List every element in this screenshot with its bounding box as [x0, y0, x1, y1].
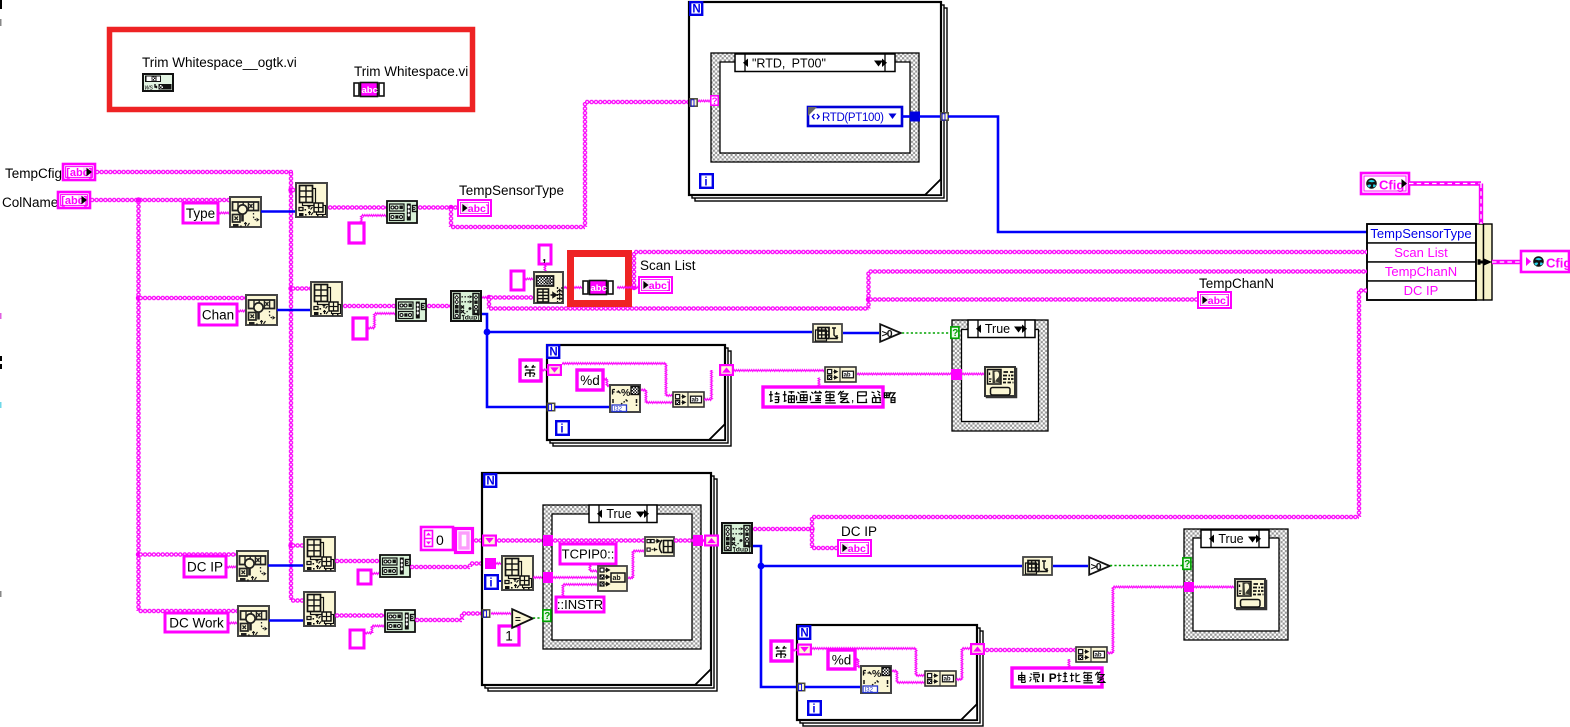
- svg-text:DC IP: DC IP: [1404, 283, 1439, 298]
- node Format Into String (bot): [861, 666, 891, 694]
- wire format to concat (mid): [641, 388, 646, 393]
- wire spreadsheet to trim: [564, 285, 582, 290]
- constant 1: [499, 626, 519, 645]
- wire tunnel to case (big): [497, 538, 543, 542]
- constant empty string (Type row): [349, 223, 364, 243]
- wire trim out to big loop: [410, 565, 470, 569]
- wire search DCWork output (blue): [269, 619, 303, 622]
- wire index-to-trim (Chan): [343, 304, 397, 308]
- tunnel [] blue (mid loop): [547, 403, 554, 411]
- wire label to concat2: [817, 378, 822, 388]
- wire array size to >0: [843, 332, 879, 335]
- node Index Array (DC Work): [304, 592, 335, 626]
- indicator Scan List: [639, 277, 672, 293]
- svg-text:TempChanN: TempChanN: [1199, 276, 1274, 291]
- wire scan list up-right to bundle: [632, 252, 636, 288]
- node Index Array (in loop): [502, 556, 533, 590]
- node Greater Than 0 (scan): [880, 324, 901, 342]
- node Build Array (TCPIP): [645, 537, 674, 556]
- constant %d (bot): [828, 650, 855, 669]
- constant 0 numeric: [421, 527, 453, 550]
- red free label frame: [110, 30, 473, 110]
- subVI Trim Whitespace__ogtk.vi icon: [143, 74, 173, 92]
- svg-text:TempCfig: TempCfig: [5, 166, 62, 181]
- wire case out to loop tunnel: [703, 538, 706, 542]
- svg-text:Type: Type: [186, 206, 215, 221]
- wire bot loop out: [985, 648, 1075, 652]
- wire concat2 to case: [857, 372, 952, 377]
- svg-text:%d: %d: [580, 373, 600, 388]
- junction TempCfig-Type: [288, 187, 293, 192]
- svg-text:True: True: [985, 322, 1010, 336]
- node Trim Whitespace array (Chan): [396, 299, 426, 321]
- wire dup2 out: [753, 527, 812, 531]
- wire blue to array size: [487, 331, 812, 334]
- tunnel [] right (top loop): [941, 113, 948, 121]
- wire index to trim (DCWork): [335, 613, 386, 617]
- wire TempCfig to DCWork index stub: [291, 598, 305, 602]
- wire enum to tunnel (blue): [902, 115, 911, 118]
- wire empty to trim (DCIP): [371, 571, 379, 576]
- junction ColName: [136, 197, 141, 202]
- node Search 1D Array (Chan): [246, 295, 277, 325]
- For loop (TCPIP): [488, 479, 717, 691]
- constant empty string (scan): [511, 271, 524, 290]
- wire blue inside mid loop: [555, 406, 609, 409]
- wire [] to equals: [491, 611, 511, 616]
- wire Cfig to bundle (cluster): [1409, 181, 1481, 185]
- For loop i (bot): [808, 701, 821, 715]
- wire blue down to mid loop: [487, 332, 547, 407]
- constant empty pink box: [456, 529, 473, 553]
- junction TempSensorType: [448, 205, 453, 210]
- wire empty to spreadsheet: [524, 277, 533, 282]
- wire INSTR to concat3: [561, 585, 566, 598]
- tunnel [] blue (bot loop): [797, 683, 804, 691]
- svg-text:RTD(PT100): RTD(PT100): [822, 112, 884, 124]
- wire format to concat (bot): [892, 669, 897, 674]
- junction scan list: [631, 285, 636, 290]
- svg-text:,: ,: [543, 249, 547, 264]
- tunnel up-arrow out (mid loop): [719, 364, 734, 376]
- For loop (power format): [803, 631, 983, 726]
- wire tunnel to concat (bot): [812, 646, 916, 651]
- case ? tunnel (power): [1183, 558, 1191, 570]
- label 扫描通道重复,已忽略: [763, 387, 883, 407]
- wire TempSensorType down-right: [449, 208, 453, 228]
- wire ColName to DCWork search: [139, 609, 238, 613]
- wire array into build: [553, 538, 644, 542]
- svg-text:::INSTR: ::INSTR: [557, 597, 603, 612]
- For loop i (mid): [556, 421, 569, 435]
- wire empty-to-trim (Type): [359, 216, 364, 224]
- wire bool to case (power): [1110, 565, 1184, 567]
- wire blue down to bottom loop: [761, 566, 797, 687]
- constant comma: [539, 245, 551, 264]
- node Index Array (Chan): [311, 282, 342, 316]
- tunnel down-arrow (mid loop): [547, 364, 562, 376]
- wire trim to dup (Chan): [427, 304, 450, 308]
- tunnel up-arrow out (big loop): [704, 535, 719, 547]
- svg-text:True: True: [606, 507, 631, 521]
- node Format Into String (mid): [610, 385, 640, 413]
- case selector True (power): [1201, 530, 1269, 548]
- wire Chan to search: [237, 309, 245, 314]
- node Remove Duplicates 2 [dup]: [722, 523, 752, 554]
- tunnel magenta solid (scan): [951, 369, 962, 380]
- wire concat3 to build: [628, 576, 633, 581]
- case structure (sensor type): [711, 53, 919, 162]
- wire dup out: [482, 295, 489, 300]
- wire ColName to DCIP search: [139, 552, 237, 556]
- wire trim out to big loop (DCWork): [415, 618, 462, 622]
- control TempCfig [abc]: [63, 164, 95, 180]
- node Concatenate Strings (power warning): [1076, 647, 1107, 662]
- case ? tunnel (scan): [951, 327, 959, 339]
- wire build out: [674, 538, 693, 542]
- svg-text:Cfig: Cfig: [1379, 178, 1404, 193]
- case selector RTD PT00: [735, 54, 895, 72]
- wire search Type output (blue index): [261, 210, 296, 213]
- wire ColName vertical trunk: [136, 200, 140, 611]
- wire dup to spreadsheet node: [489, 295, 533, 299]
- wire bundle to Cfig out (cluster): [1492, 260, 1521, 264]
- node Index Array (Type): [296, 183, 327, 217]
- wire index to trim (DCIP): [335, 559, 381, 563]
- node Concatenate Strings (bot loop): [925, 671, 956, 686]
- wire to TempChanN indicator: [869, 297, 1199, 301]
- tunnel solid case-out: [693, 535, 703, 546]
- control ColName [abc]: [58, 192, 90, 208]
- wire %d to format: [603, 377, 607, 382]
- wire top loop to bundle (blue): [948, 117, 1367, 233]
- For loop N (big): [484, 474, 496, 487]
- wire concat to out tunnel (mid): [704, 397, 712, 402]
- For loop (sensor type): [695, 8, 947, 201]
- For loop (scan format): [553, 351, 731, 446]
- svg-text:"RTD, PT00": "RTD, PT00": [752, 57, 826, 71]
- constant TCPIP0::: [560, 544, 616, 564]
- svg-text:P: P: [1049, 671, 1057, 685]
- tunnel solid case-in2: [543, 572, 553, 583]
- wire concat to out tunnel (bot): [956, 677, 962, 682]
- wire tunnel to case selector: [698, 99, 711, 104]
- node Equal? (big loop): [512, 609, 533, 628]
- svg-text:Trim Whitespace.vi: Trim Whitespace.vi: [354, 64, 468, 79]
- case ? tunnel (TCPIP): [543, 610, 551, 622]
- wire 第 to tunnel: [541, 368, 547, 373]
- svg-text:TempSensorType: TempSensorType: [1370, 226, 1471, 241]
- tunnel [] DCWork (big loop): [482, 610, 489, 618]
- tunnel magenta solid (power): [1184, 582, 1194, 592]
- wire i to index: [499, 580, 501, 582]
- wire trim to TempSensorType: [418, 205, 458, 209]
- node Trim Whitespace array (Type): [387, 201, 417, 223]
- For loop i (big): [485, 575, 498, 589]
- wire blue to array size 2: [761, 565, 1022, 568]
- svg-text:Chan: Chan: [202, 307, 234, 322]
- red frame around trim: [571, 254, 629, 304]
- node Concatenate Strings 3 (TCPIP): [598, 566, 627, 591]
- svg-text:DC IP: DC IP: [187, 559, 223, 574]
- svg-text:TCPIP0::: TCPIP0::: [562, 547, 615, 562]
- case selector True (scan): [968, 320, 1035, 338]
- wire TempCfig to Index Array stub: [291, 188, 298, 192]
- wire into dialog (power): [1194, 585, 1234, 590]
- svg-text:Cfig: Cfig: [1546, 256, 1570, 271]
- svg-text:DC IP: DC IP: [841, 524, 877, 539]
- wire case-in2 to concat3: [553, 575, 597, 580]
- case structure (TCPIP): [543, 505, 701, 649]
- junction dup out: [486, 295, 491, 300]
- node Array Size (scan): [813, 324, 842, 342]
- wire to DC IP indicator: [810, 529, 814, 548]
- junction ColName-DCIP: [136, 552, 141, 557]
- indicator Cfig: [1521, 251, 1570, 272]
- tunnel solid in1 (big loop): [485, 558, 496, 569]
- wire 1 to equals: [512, 621, 517, 626]
- wire TempCfig vertical trunk: [289, 172, 293, 600]
- node Array Size (power): [1023, 557, 1052, 575]
- wire equals to case ?: [533, 617, 544, 619]
- wire comma down: [543, 264, 548, 272]
- constant Type: [183, 203, 218, 223]
- wire label to concat (power): [1067, 659, 1072, 668]
- svg-text:Trim Whitespace__ogtk.vi: Trim Whitespace__ogtk.vi: [142, 55, 297, 70]
- constant ::INSTR: [556, 597, 604, 612]
- svg-text:%d: %d: [832, 652, 852, 667]
- node Remove Duplicates [dup]: [451, 291, 481, 322]
- svg-text:,: ,: [851, 391, 854, 405]
- svg-text:True: True: [1218, 532, 1243, 546]
- wire 0 to big loop tunnel: [474, 538, 482, 542]
- indicator DC IP: [838, 540, 871, 556]
- svg-text:1: 1: [505, 628, 513, 643]
- junction dup2 out: [809, 526, 814, 531]
- constant 第 (mid): [520, 360, 541, 381]
- wire TempCfig to DCIP index stub: [291, 543, 305, 547]
- wire bool to case (scan): [902, 332, 952, 334]
- node Concatenate Strings (mid loop): [673, 392, 704, 407]
- wire up to top For loop: [583, 102, 587, 227]
- case selector True (TCPIP): [589, 505, 657, 523]
- indicator TempChanN: [1198, 292, 1231, 308]
- svg-text:DC Work: DC Work: [169, 615, 224, 630]
- wire trim out: [617, 285, 639, 290]
- svg-text:Scan List: Scan List: [640, 258, 696, 273]
- constant Chan: [199, 304, 237, 325]
- For loop N (top): [690, 2, 702, 15]
- wire blue inside bot loop: [805, 686, 860, 689]
- node Trim Whitespace array (DC IP): [380, 555, 410, 577]
- node Trim Whitespace array (DC Work): [385, 610, 415, 632]
- wire ColName to Chan search: [139, 296, 246, 300]
- constant %d (mid): [577, 370, 603, 390]
- node Search 1D Array (Type): [230, 197, 261, 227]
- wire index out to case tunnel: [533, 575, 543, 580]
- wire index-to-trim (Type): [328, 205, 388, 209]
- junction TempCfig-DCIP: [288, 543, 293, 548]
- constant empty (DCWork row): [350, 630, 364, 648]
- svg-text:I: I: [1041, 671, 1044, 685]
- control Cfig: [1361, 173, 1409, 194]
- wire dup blue out: [482, 314, 487, 332]
- wire ColName horizontal: [90, 198, 229, 202]
- case ? tunnel (top): [711, 96, 718, 107]
- wire TempCfig to Chan index stub: [291, 286, 312, 290]
- wire 第 to tunnel (bot): [792, 648, 797, 653]
- indicator TempSensorType: [458, 200, 491, 216]
- constant 第 (bot): [771, 641, 792, 661]
- svg-text:Scan List: Scan List: [1394, 245, 1448, 260]
- For loop i (top): [700, 174, 713, 188]
- junction TempChanN: [866, 297, 871, 302]
- wire %d to format (bot): [855, 657, 858, 662]
- case structure (power warning): [1184, 529, 1288, 640]
- constant DC IP: [184, 556, 226, 577]
- For loop N (mid): [547, 345, 559, 358]
- label 电源IP地址重复: [1012, 668, 1102, 687]
- wire tunnel to index (big): [496, 561, 501, 566]
- tunnel down-arrow (big loop): [482, 535, 497, 547]
- node Search 1D Array (DC Work): [238, 606, 269, 636]
- constant empty (DCIP row): [358, 570, 371, 584]
- junction blue middle: [484, 329, 491, 336]
- svg-text:TempChanN: TempChanN: [1385, 264, 1457, 279]
- node One Button Dialog (power): [1235, 579, 1267, 610]
- wire into dialog (scan): [962, 372, 984, 377]
- tunnel blue square (case right): [910, 112, 920, 122]
- For loop N (bot): [798, 626, 810, 639]
- wire asz2 to gt0: [1053, 565, 1088, 568]
- wire search DCIP output (blue): [268, 564, 303, 567]
- node One Button Dialog (scan): [985, 367, 1017, 398]
- node Index Array (DC IP): [304, 537, 335, 571]
- wire concat to case (power): [1107, 651, 1113, 656]
- wire TempCfig horizontal: [95, 170, 293, 174]
- tunnel [] left (top loop): [690, 99, 697, 107]
- wire DCWork to search: [228, 621, 237, 626]
- wire TempChanN long: [487, 298, 491, 309]
- wire Type to search: [218, 211, 229, 216]
- wire case tunnel to loop tunnel: [919, 115, 941, 118]
- wire empty-to-trim (Chan): [367, 326, 375, 331]
- tunnel down-arrow (bot loop): [797, 644, 812, 656]
- wire DCIP to search: [226, 565, 236, 570]
- wire TCPIP0 down: [588, 564, 593, 571]
- constant empty string (Chan row): [353, 318, 367, 339]
- canvas edge marks: [0, 0, 2, 9]
- node Greater Than 0 (power): [1089, 557, 1110, 575]
- tunnel up-arrow out (bot loop): [970, 643, 985, 655]
- wire mid loop out: [733, 368, 824, 373]
- wire tunnel top to concat: [562, 361, 666, 366]
- case structure (scan warning): [952, 320, 1048, 431]
- enum constant RTD(PT100): [808, 107, 902, 126]
- wire search Chan output (blue): [277, 309, 310, 312]
- node Search 1D Array (DC IP): [237, 551, 268, 581]
- svg-text:ColName: ColName: [2, 195, 58, 210]
- junction TempCfig-Chan: [288, 286, 293, 291]
- junction blue bottom: [758, 563, 765, 570]
- svg-text:0: 0: [436, 532, 444, 548]
- node Bundle By Name: [1367, 224, 1476, 243]
- svg-text:TempSensorType: TempSensorType: [459, 183, 564, 198]
- constant DC Work: [165, 613, 228, 632]
- subVI Trim Whitespace.vi icon: [354, 83, 384, 97]
- wire empty to trim (DCWork): [364, 631, 372, 636]
- wire DC IP to bundle: [810, 517, 814, 529]
- tunnel solid case-in1: [543, 535, 553, 546]
- node Concatenate Strings (warning): [825, 367, 856, 382]
- junction ColName-Chan: [136, 295, 141, 300]
- node Array To Spreadsheet String: [534, 272, 563, 303]
- wire dup2 blue out: [753, 546, 761, 566]
- subVI Trim Whitespace (scan): [583, 281, 613, 295]
